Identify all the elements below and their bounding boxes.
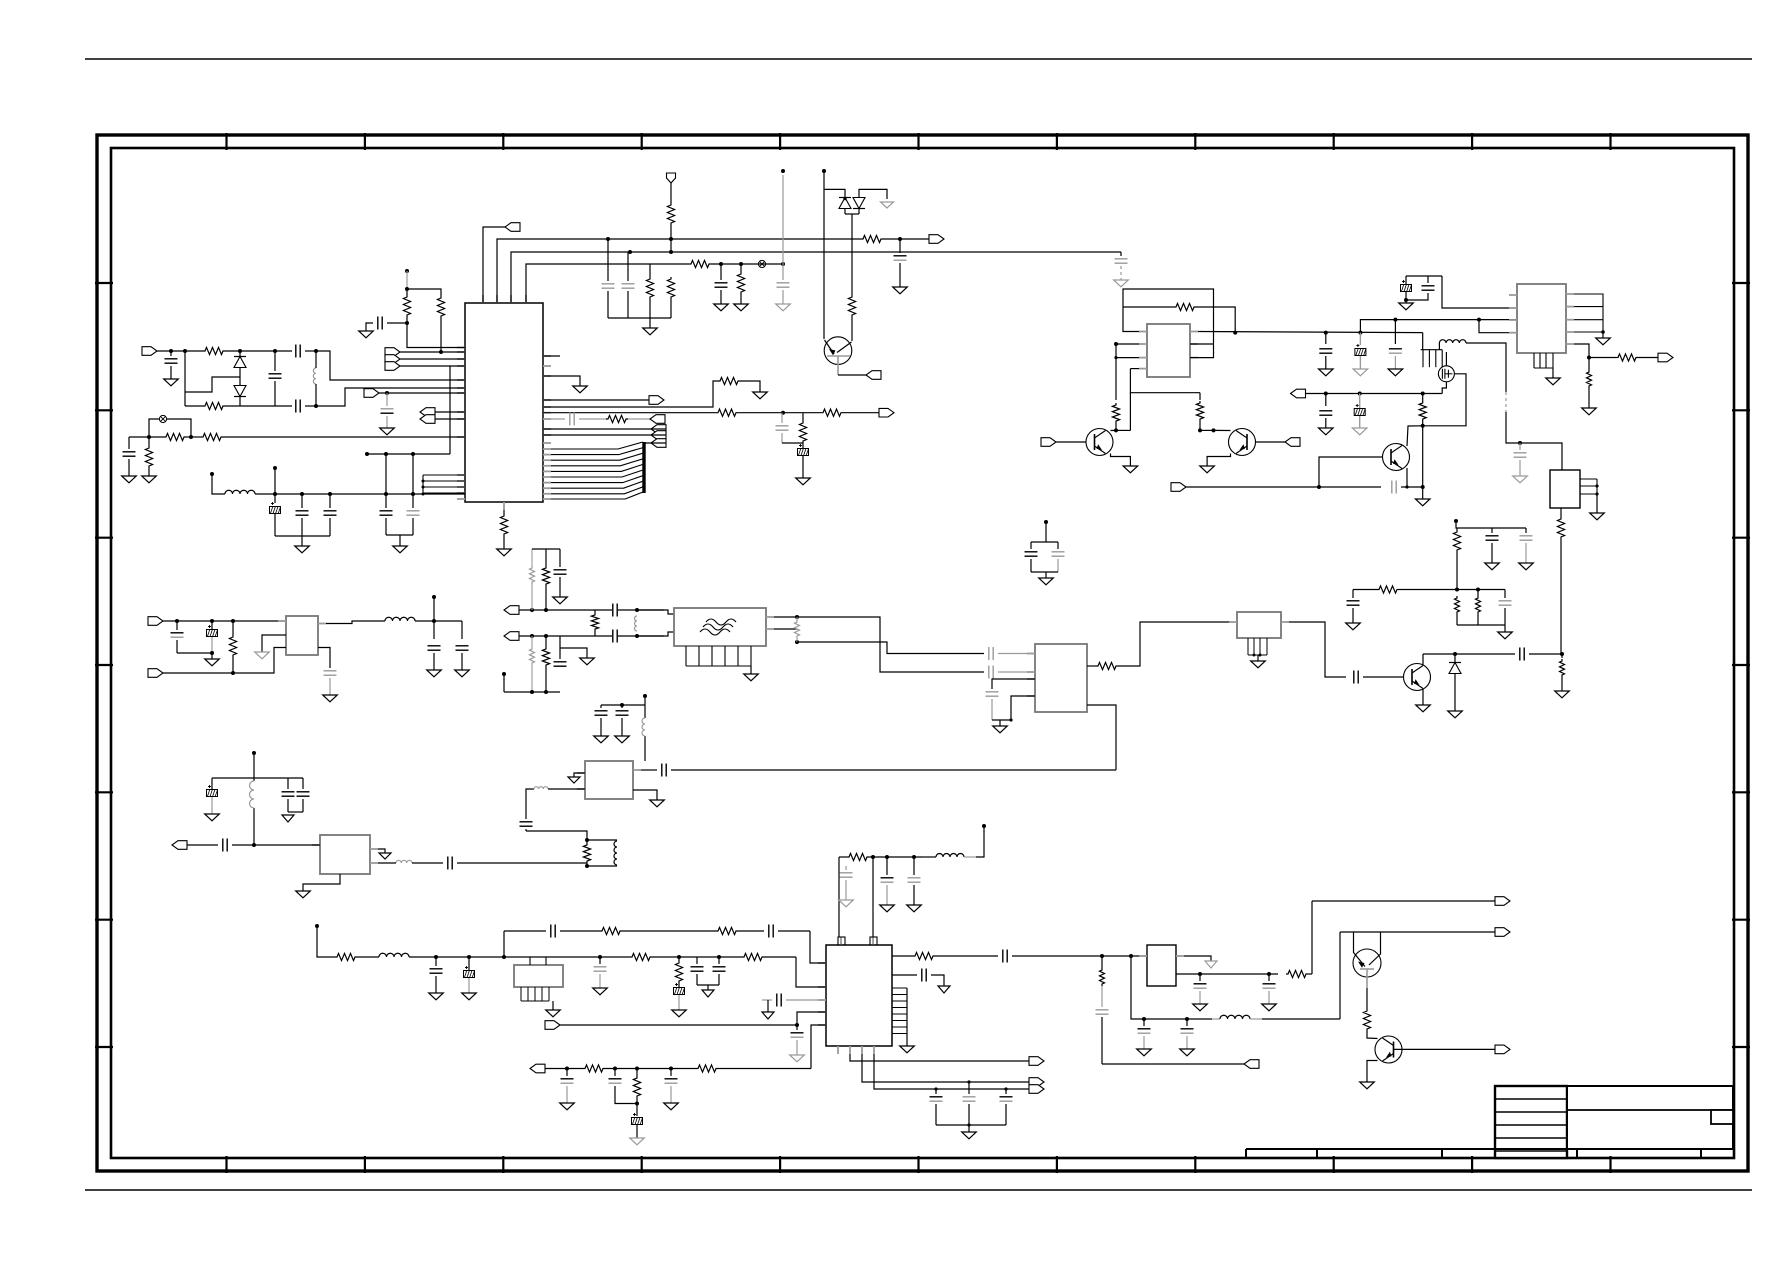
wire C32 tail: [176, 640, 178, 653]
wire bar stem: [301, 536, 303, 546]
wire R13 bottom to pin: [407, 317, 465, 348]
capacitor C72: [1194, 984, 1207, 988]
wire stub grey x407: [406, 271, 408, 289]
wire left end drop: [128, 437, 130, 449]
wire out y400: [543, 399, 650, 401]
junction N30: [405, 321, 409, 325]
wire fb to cap: [412, 862, 443, 864]
junction N10: [183, 349, 187, 353]
capacitor C73: [1263, 984, 1276, 988]
capacitor C45: [662, 764, 666, 777]
wire QM1 gate right: [1423, 374, 1466, 426]
transformer T1 primary bars: [1421, 350, 1443, 368]
wire C29 tail: [1504, 608, 1506, 625]
wire line y1068.5b: [605, 1068, 696, 1070]
junction N77: [795, 640, 799, 644]
wire R40 join: [796, 617, 798, 642]
wire x254 verta: [253, 753, 255, 781]
wire VDD rail y239: [497, 239, 861, 303]
resistor R6: [667, 277, 674, 299]
junction N75: [635, 634, 639, 638]
ground: [714, 304, 729, 311]
resistor R43: [847, 853, 869, 860]
wire diode to resistor: [851, 214, 853, 295]
ferrite bead FB1: [396, 860, 412, 863]
wire P17 to QA base: [1056, 441, 1086, 443]
wire R52 top: [636, 1069, 638, 1077]
wire U1 right pin bundle: [551, 442, 643, 499]
ground: [744, 674, 759, 681]
wire line y931a: [504, 930, 546, 932]
wire U10 out: [892, 955, 913, 957]
wire line2 to FL1: [637, 632, 674, 636]
capacitor C25: [1392, 481, 1396, 494]
ground: [1485, 563, 1500, 570]
wire R39 top: [594, 610, 596, 613]
wire U2 loop leg: [1190, 307, 1214, 358]
ground: [142, 476, 157, 483]
wire C67 tail: [670, 1086, 672, 1103]
wire U9 top gnd hook: [378, 849, 385, 853]
U5 right pin stub: [1281, 621, 1289, 623]
wire C27 gnd lead: [1525, 543, 1527, 563]
border tick marks top: [227, 133, 1611, 150]
wire line y654a: [1423, 653, 1515, 655]
wire C14 to bar: [329, 518, 331, 536]
wire chain y957a: [317, 926, 335, 957]
ground: [546, 1010, 561, 1017]
junction N92: [613, 1067, 617, 1071]
wire cap drop x719: [718, 957, 720, 964]
ground: [615, 736, 630, 743]
junction N9: [169, 349, 173, 353]
resistor R35: [530, 566, 535, 584]
resistor R51: [696, 1065, 718, 1072]
wire riser x984: [976, 826, 984, 857]
wire Q5 emitter: [1367, 1061, 1378, 1083]
polarized capacitor CP3: [1355, 344, 1366, 356]
wire CP8 top: [468, 957, 470, 970]
capacitor C53: [922, 969, 926, 982]
wire R35 top: [531, 549, 533, 566]
wire C6 to bar: [627, 291, 629, 318]
wire R22 to node: [1115, 423, 1117, 430]
junction N98: [1142, 1017, 1146, 1021]
junction N79: [620, 703, 624, 707]
wire U9 out: [378, 862, 396, 864]
wire C74 tail: [935, 1104, 937, 1125]
ground: [205, 814, 220, 821]
port P10: [649, 396, 664, 405]
wire R34 bottom: [232, 657, 234, 673]
wire Q1 emitter: [837, 356, 839, 375]
capacitor C36: [554, 570, 567, 574]
title block main box: [1567, 1086, 1733, 1149]
wire R14 bottom: [440, 318, 442, 352]
wire bal line1a: [519, 609, 612, 611]
wire C49 to tank: [457, 862, 587, 864]
wire cap drop x1006: [1005, 1089, 1007, 1094]
ground: [734, 304, 749, 311]
wire vin line: [163, 620, 286, 622]
wire C19 to res: [579, 418, 607, 420]
ground: [1546, 378, 1561, 385]
polarized capacitor CP8: [464, 966, 475, 978]
polarized capacitor CP4: [1401, 280, 1412, 292]
wire U6 gnd pin: [262, 635, 286, 652]
capacitor C44: [1052, 552, 1065, 556]
ground: [1498, 632, 1513, 639]
junction N37: [1198, 428, 1202, 432]
wire chain y957b: [357, 956, 379, 958]
wire QA emitter: [1111, 454, 1131, 467]
wire chain y957d: [652, 956, 742, 958]
U7 left pin stubs: [1027, 654, 1035, 697]
junction N15: [385, 391, 389, 395]
ground: [568, 777, 580, 783]
capacitor C41: [989, 647, 993, 660]
U1 left pin stubs: [457, 348, 465, 500]
ground: [1596, 338, 1611, 345]
capacitor C24: [1319, 411, 1332, 415]
wire C8 lower: [274, 381, 276, 406]
wire tank up path: [526, 831, 587, 840]
wire lower row y406a: [185, 405, 203, 407]
wire R15 gnd hook: [740, 381, 760, 392]
U2 right pin stubs: [1190, 332, 1198, 358]
wire CP3 gnd lead: [1359, 356, 1361, 369]
wire x1562 tail: [1561, 654, 1563, 658]
wire C19 left: [543, 418, 565, 420]
wire U6 out right: [318, 648, 330, 669]
ground: [295, 546, 310, 553]
capacitor C6: [622, 284, 635, 288]
regulator IC U4: [1550, 470, 1580, 508]
wire C51 tail: [287, 799, 289, 812]
ground: [122, 476, 137, 483]
wire cap drop x969: [968, 1082, 970, 1094]
wire U8 out line: [671, 769, 1116, 771]
wire rail y437c: [223, 436, 465, 438]
wire grey seg y1019: [1212, 1018, 1220, 1020]
wire C41 to M: [998, 653, 1035, 655]
U5 left pin stub: [1229, 621, 1237, 623]
ground: [790, 1055, 805, 1062]
wire lower row y406b: [225, 405, 292, 407]
ground: [455, 670, 470, 677]
wire D2 bottom stub: [239, 397, 241, 407]
ground: [1114, 280, 1129, 287]
capacitor C47: [616, 711, 629, 715]
capacitor C2: [1115, 259, 1128, 263]
wire corner x796: [796, 957, 826, 987]
junction N57: [1476, 588, 1480, 592]
port VOUT P2: [929, 235, 944, 244]
wire C43 tail: [1030, 559, 1032, 572]
MOSFET QM1: [1438, 366, 1454, 382]
capacitor C10: [296, 400, 300, 413]
net stub dot: [210, 472, 214, 476]
capacitor C1: [894, 256, 907, 260]
wire x1395 drop: [1394, 320, 1396, 344]
ground: [664, 1103, 679, 1110]
wire FL1 out lower: [774, 628, 797, 630]
wire to U1 pin y388: [316, 388, 465, 406]
wire CP4 top: [1405, 276, 1407, 284]
capacitor C60: [594, 967, 607, 971]
port REF_EN P1: [505, 223, 520, 232]
U1 right pin stubs: [543, 356, 551, 499]
junction N91: [565, 1067, 569, 1071]
wire C37 hook: [560, 648, 587, 658]
wire x450 riser: [450, 366, 465, 454]
wire cap x275 inter-row: [274, 351, 276, 371]
wire tank top: [587, 839, 617, 841]
wire bar to ground: [649, 318, 651, 328]
wire caps bar: [601, 704, 645, 706]
main transceiver IC U1: [465, 303, 543, 502]
U10 left pin stubs: [818, 963, 826, 1025]
port P16: [866, 371, 881, 380]
wire FL1 gnd stem: [750, 666, 752, 674]
junction N22: [411, 452, 415, 456]
wire R1 to C node: [883, 238, 900, 240]
wire CP6 top: [211, 621, 213, 629]
wire pin riser x797: [797, 1012, 826, 1025]
junction dot: [585, 838, 589, 842]
wire L5 lead: [922, 856, 936, 858]
polarized capacitor CP6: [207, 625, 218, 637]
polarized capacitor CP9: [674, 983, 685, 995]
junction N87: [598, 955, 602, 959]
capacitor C9: [296, 345, 300, 358]
wire U7 LO pin: [1087, 705, 1116, 770]
capacitor C54: [840, 873, 853, 877]
wire R18 top: [802, 413, 804, 421]
wire lead C4 gnd: [782, 290, 784, 304]
wire res drop x741: [740, 264, 742, 272]
wire QB base port: [1256, 441, 1286, 443]
junction N56: [1455, 588, 1459, 592]
wire cap drop x177: [176, 621, 178, 630]
capacitor C16: [407, 511, 420, 515]
wire C71 tail: [1186, 1036, 1188, 1049]
wire U3 out: [1574, 344, 1616, 358]
junction N32: [843, 197, 846, 200]
wire pin riser x811: [811, 1025, 826, 1069]
wire FL1 out upper: [774, 617, 984, 672]
wire rail y332.6: [1198, 332, 1423, 333]
wire U7 bypass hook1: [992, 679, 1035, 689]
polarized capacitor CP1: [270, 502, 281, 514]
capacitor C75: [963, 1097, 976, 1101]
port IN+ P24: [504, 606, 519, 615]
resistor R50: [583, 1065, 605, 1072]
FL1 wave symbol: [700, 619, 736, 635]
resistor R28: [1557, 517, 1564, 539]
junction N95: [635, 1102, 639, 1106]
diode D3: [839, 198, 851, 209]
capacitor C27: [1520, 536, 1533, 540]
ground: [776, 304, 791, 311]
junction N94: [669, 1067, 673, 1071]
ground: [1415, 499, 1430, 506]
transistor Q4: [1353, 949, 1381, 977]
capacitor C7: [165, 359, 178, 363]
ground: [205, 659, 220, 666]
wire rail y264a: [526, 264, 689, 303]
wire line y931c: [622, 930, 716, 932]
wire R18 join: [802, 443, 804, 448]
wire R32 tail: [1477, 614, 1479, 625]
inner border frame: [111, 148, 1734, 1158]
wire U5 out: [1289, 622, 1346, 677]
inductor L1: [225, 490, 255, 494]
ground: [643, 328, 658, 335]
wire hook pin y376: [543, 376, 580, 386]
wire Q5 to port: [1394, 1048, 1497, 1050]
wire C44 tail: [1057, 559, 1059, 572]
wire cap join: [525, 829, 527, 831]
polarized capacitor CP2: [798, 444, 809, 456]
junction N73: [544, 690, 548, 694]
wire U7 out: [1087, 665, 1096, 667]
ground: [1360, 1082, 1375, 1089]
ground: [1319, 369, 1334, 376]
wire ground bar: [608, 317, 671, 319]
wire cluster stem: [1045, 522, 1047, 542]
capacitor C70: [1138, 1029, 1151, 1033]
ground: [1590, 513, 1605, 520]
U3 right pin stubs: [1566, 294, 1574, 344]
wire y454 link: [367, 453, 450, 455]
wire D3 bottom stub: [844, 209, 846, 215]
polarized capacitor CP7: [207, 785, 218, 797]
wire bundle bus bar: [642, 442, 645, 493]
capacitor C3: [715, 283, 728, 287]
resistor R48: [675, 961, 682, 983]
resistor R46: [335, 953, 357, 960]
border tick marks right: [1732, 283, 1750, 1047]
wire C30 to Q2 base: [1363, 676, 1404, 678]
ground: [1251, 661, 1266, 668]
wire chain y957c: [409, 956, 630, 958]
wire bat bar: [177, 652, 212, 654]
wire CP2 gnd: [802, 456, 804, 478]
wire C65 tail: [566, 1086, 568, 1103]
capacitor C40: [989, 666, 993, 679]
capacitor C19: [570, 413, 574, 426]
junction N33: [1233, 331, 1237, 335]
inductor L5: [936, 854, 964, 858]
junction N36: [1114, 428, 1118, 432]
wire cap drop x671: [670, 1069, 672, 1077]
wire port P20 line: [1186, 486, 1381, 488]
net stub dot: [432, 595, 436, 599]
ground: [1262, 1004, 1277, 1011]
wire R33 gnd: [1561, 677, 1563, 691]
wire D4 bottom stub: [858, 209, 860, 215]
transistor Q2: [1404, 664, 1431, 691]
ground: [429, 993, 444, 1000]
capacitor C35: [456, 646, 469, 650]
wire cap drop at x900: [899, 239, 901, 253]
capacitor C42: [986, 692, 999, 696]
resistor R47: [630, 953, 652, 960]
capacitor C17: [378, 317, 382, 330]
wire C63 grey left: [762, 999, 772, 1001]
junction N21: [384, 452, 388, 456]
inductor L6: [379, 953, 409, 957]
wire line y931b: [560, 930, 600, 932]
capacitor C64: [791, 1033, 804, 1037]
wire row2 to node: [305, 405, 316, 407]
junction N62: [175, 619, 179, 623]
wire cap drop x887: [886, 857, 888, 875]
port P13: [651, 425, 666, 434]
wire R55 to x1312: [1308, 973, 1312, 975]
resistor R15: [718, 377, 740, 384]
wire fb link bottom: [315, 384, 317, 406]
wire C66 to bar: [615, 1086, 637, 1104]
wire cap drop x782: [781, 413, 783, 423]
wire line y1068.5a: [545, 1068, 583, 1070]
wire C15 to bar: [385, 518, 387, 535]
junction N59: [1259, 654, 1262, 657]
wire cluster join: [1406, 292, 1428, 300]
wire R38 bot: [545, 667, 547, 692]
wire C28 gnd: [1352, 608, 1354, 623]
wire capx1058: [1057, 542, 1059, 549]
port P11: [879, 408, 894, 417]
net stub dot: [405, 269, 409, 273]
junction N103: [1004, 1087, 1007, 1090]
wire bar stem to gnd: [1504, 625, 1506, 632]
wire CP5 top: [1359, 394, 1361, 409]
resistor R9: [164, 433, 186, 440]
wire line y589.5a: [1353, 589, 1377, 591]
wire R36 top: [545, 549, 547, 566]
diode D1: [234, 357, 246, 368]
wire C26 gnd: [1491, 543, 1493, 563]
wire cap drop x462: [461, 621, 463, 639]
ground: [702, 990, 714, 997]
ground: [593, 988, 608, 995]
capacitor C65: [561, 1079, 574, 1083]
ground: [323, 695, 338, 702]
wire U1 bottom pin: [503, 510, 505, 514]
resistor R39: [591, 613, 598, 631]
junction dot: [585, 864, 589, 868]
U12 pin stubs: [1139, 955, 1184, 957]
port P26: [172, 841, 187, 850]
TCXO IC U11: [514, 965, 563, 987]
capacitor C32: [171, 633, 184, 637]
junction N72: [530, 690, 534, 694]
wire P7 to U1: [400, 351, 465, 353]
wire U3 bottom pins: [1534, 353, 1553, 368]
wire C17 left gnd: [366, 323, 373, 331]
wire C1 to ground: [899, 263, 901, 287]
capacitor C55: [881, 878, 894, 882]
wire drop x1353: [1352, 590, 1354, 599]
port P27: [545, 1021, 560, 1030]
inductor L2: [1439, 340, 1466, 343]
capacitor C52: [297, 792, 310, 796]
wire cap drop x171: [170, 351, 172, 356]
wire stub x212: [212, 474, 225, 494]
junction N44: [1518, 441, 1522, 445]
